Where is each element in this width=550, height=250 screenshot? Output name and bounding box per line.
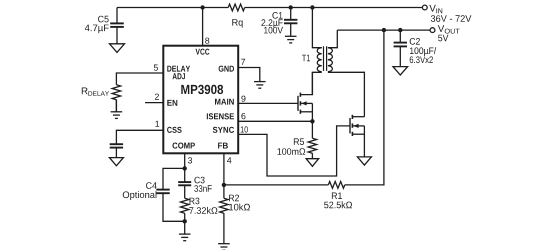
label R1 value — [324, 201, 352, 208]
transformer T1 core — [323, 46, 325, 71]
transformer T1 secondary winding — [328, 48, 333, 72]
label R5 value — [278, 148, 306, 155]
label VIN range — [431, 15, 472, 22]
wire pin 4 FB lead — [223, 153, 225, 185]
resistor R1 — [328, 182, 345, 189]
label pin EN — [167, 100, 177, 106]
wire T1 primary top lead — [312, 8, 321, 48]
label C2 value — [410, 47, 436, 56]
ground open triangle below CSS cap — [109, 158, 123, 166]
ground open triangle below C5 — [110, 44, 125, 53]
wire pin 5 DELAY ADJ lead — [116, 73, 163, 85]
label R2 — [229, 195, 239, 202]
label C3 value — [194, 185, 211, 192]
transistor Q2 source lead — [352, 133, 364, 135]
node junction R3 C4 bottom — [183, 219, 187, 223]
node junction COMP — [183, 166, 187, 170]
label R3 — [190, 198, 200, 205]
transformer T1 primary winding — [317, 48, 322, 72]
ground earth below R3 node — [179, 233, 191, 235]
wire Q2 source tie to ground — [363, 126, 365, 157]
resistor R5 — [311, 121, 313, 138]
label pin ADJ — [173, 73, 186, 79]
node junction T1 primary on rail — [310, 5, 314, 9]
label pin CSS — [167, 127, 182, 133]
wire pin 9 MAIN lead to Q1 gate — [238, 102, 298, 104]
wire pin 10 SYNC lead to Q2 gate — [238, 126, 350, 176]
wire COMP node to C4 branch — [163, 168, 185, 189]
transistor Q1 substrate lead — [300, 102, 312, 104]
ground open triangle below R5 — [306, 159, 319, 167]
resistor RDELAY — [112, 85, 120, 100]
label C4 — [146, 182, 157, 189]
label pin FB — [218, 143, 228, 149]
wire pin 2 EN stub — [145, 102, 163, 104]
pin number 5 — [154, 65, 158, 71]
label C1 value — [261, 19, 282, 28]
pin number 7 — [241, 59, 245, 65]
ground open triangle below Q2 — [357, 157, 371, 165]
label C3 — [194, 177, 204, 184]
capacitor C2 — [399, 30, 401, 42]
wire RDELAY bottom lead — [115, 100, 117, 112]
resistor Rq — [228, 4, 245, 11]
pin number 3 — [188, 157, 192, 163]
label C2 — [410, 38, 420, 45]
transistor Q2 drain lead — [352, 116, 364, 118]
resistor R3 — [181, 198, 189, 213]
wire FB node to R1 — [224, 184, 328, 186]
transistor Q2 substrate lead — [352, 125, 364, 127]
label C1 voltage — [264, 27, 283, 34]
transistor Q2 body arrow — [353, 124, 358, 128]
ground open triangle below C2 — [393, 67, 408, 75]
label pin COMP — [173, 143, 195, 149]
label C5 value — [85, 25, 109, 33]
transistor Q2 channel — [351, 115, 353, 119]
label C5 — [98, 16, 109, 23]
label Rq — [232, 19, 242, 28]
wire bottom node to ground — [184, 221, 186, 234]
wire R5 bottom lead — [311, 153, 313, 159]
wire VOUT rail — [337, 29, 430, 31]
label C2 voltage — [410, 56, 433, 63]
wire pin 7 GND lead — [238, 68, 260, 82]
pin number 10 — [241, 126, 248, 132]
terminal VIN — [422, 5, 427, 10]
label pin GND — [219, 66, 234, 72]
label R2 value — [229, 204, 250, 211]
label MP3908 — [181, 85, 223, 94]
capacitor C3 — [184, 168, 186, 182]
label C4 note — [123, 191, 157, 200]
label R5 — [294, 138, 304, 145]
ground earth below RDELAY — [111, 111, 123, 113]
transistor Q1 body arrow — [301, 101, 306, 105]
label VOUT value — [438, 35, 448, 42]
pin number 1 — [155, 121, 159, 127]
wire pin 6 ISENSE lead — [238, 120, 312, 122]
label pin ISENSE — [207, 113, 234, 119]
wire top VIN rail left segment — [117, 7, 228, 9]
wire T1 secondary bottom lead to Q2 drain — [328, 72, 365, 116]
transistor Q2 gate bar — [349, 118, 351, 133]
ground earth below R2 — [218, 243, 230, 245]
transistor Q1 gate bar — [297, 96, 299, 111]
node junction FB R2 R1 — [222, 183, 226, 187]
transistor Q1 drain lead — [300, 72, 312, 94]
pin number 8 — [205, 38, 209, 44]
pin number 4 — [227, 157, 231, 163]
pin number 9 — [241, 96, 245, 102]
label R3 value — [189, 207, 217, 214]
transistor Q1 channel — [299, 93, 301, 97]
label VIN — [429, 5, 436, 12]
label pin DELAY — [167, 66, 190, 72]
node junction ISENSE Q1 source R5 — [310, 119, 314, 123]
node junction C1 on rail — [289, 5, 293, 9]
wire pin 8 VCC drop — [202, 8, 204, 46]
label R1 — [332, 193, 342, 200]
wire T1 secondary top lead to VOUT rail — [328, 30, 337, 48]
wire pin 1 CSS lead — [116, 130, 163, 144]
op-amp U1 MP3908 IC body — [163, 46, 238, 154]
label T1 — [302, 55, 310, 62]
label C1 — [272, 12, 282, 19]
wire top VIN rail right segment — [245, 7, 423, 9]
capacitor C4 — [156, 189, 169, 191]
capacitor CSS soft-start — [110, 143, 123, 145]
label RDELAY — [82, 88, 88, 95]
node junction sense vertical on VOUT rail — [382, 28, 386, 32]
node junction pin8 on rail — [200, 5, 204, 9]
resistor R2 — [223, 185, 225, 198]
node junction C2 on VOUT rail — [398, 28, 402, 32]
pin number 6 — [241, 113, 245, 119]
label pin MAIN — [215, 99, 234, 105]
wire Q1 source tie to sense node — [311, 103, 313, 121]
ground earth below pin 7 — [254, 81, 266, 83]
capacitor C1 — [290, 8, 292, 20]
capacitor C5 — [116, 8, 118, 24]
label VOUT — [438, 25, 445, 32]
pin number 2 — [155, 94, 159, 100]
terminal VOUT — [430, 28, 435, 33]
wire R1 to VOUT sense vertical — [345, 30, 384, 185]
wire T1 primary bottom lead to Q1 drain — [312, 72, 321, 94]
label pin SYNC — [213, 127, 234, 133]
ground earth below C1 — [285, 35, 297, 37]
label pin VCC — [196, 49, 210, 55]
transistor Q1 source lead — [300, 111, 312, 113]
wire pin 3 COMP lead — [184, 153, 186, 168]
